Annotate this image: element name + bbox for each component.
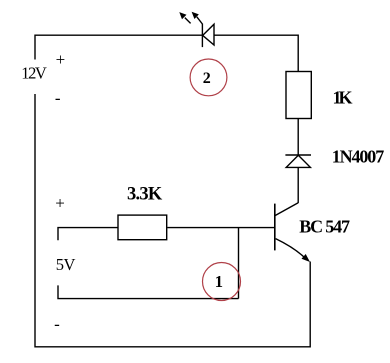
svg-text:5V: 5V	[56, 255, 76, 274]
svg-text:+: +	[55, 194, 65, 213]
svg-text:1K: 1K	[333, 88, 353, 108]
svg-text:+: +	[56, 50, 66, 69]
svg-text:1: 1	[215, 272, 223, 291]
svg-text:3.3K: 3.3K	[127, 184, 163, 204]
svg-text:1N4007: 1N4007	[332, 147, 385, 167]
svg-text:12V: 12V	[21, 63, 47, 82]
svg-text:BC 547: BC 547	[299, 216, 350, 236]
svg-text:-: -	[54, 315, 60, 334]
svg-text:-: -	[55, 88, 61, 107]
svg-text:2: 2	[203, 70, 211, 87]
